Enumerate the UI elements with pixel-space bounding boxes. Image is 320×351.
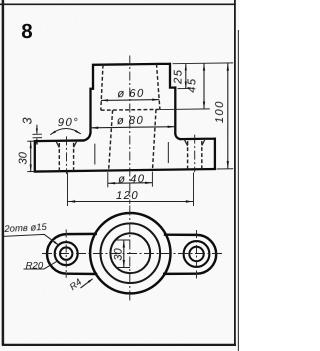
scan edge line right [237,30,239,351]
left lug outline [47,234,67,274]
left lug vertical centerline [65,230,67,278]
right lug outline [197,235,216,274]
border frame [0,0,236,346]
dimension 45 [203,63,205,109]
svg-text:25: 25 [173,69,185,86]
svg-text:90°: 90° [58,117,79,129]
svg-text:3: 3 [20,117,34,124]
extension lines right dims [160,63,233,170]
dimension d40 [108,171,153,187]
svg-text:30: 30 [17,151,29,164]
top view horizontal centerline [42,253,223,255]
left lug boss circle [55,242,78,265]
svg-text:ø 40: ø 40 [118,173,145,185]
dimension 3 chamfer [33,134,43,138]
svg-text:R20: R20 [26,261,44,272]
dimension d80 [91,127,176,128]
centerline main axis [129,56,131,205]
right lug hole d15 [189,247,203,261]
svg-text:45: 45 [186,77,198,93]
front outline [35,63,215,171]
hidden groove line right [167,142,169,163]
dimension 90 deg [50,128,81,134]
centerline right hole axis [194,135,196,173]
svg-text:100: 100 [214,100,226,123]
tangent line top-right [164,233,197,236]
leader d15 [3,234,58,244]
dimension 120 extension lines [68,173,194,207]
top view main vertical centerline [129,206,131,301]
hidden lug hole left [59,143,73,171]
hidden lug hole right [188,141,202,169]
leader R20 [24,261,58,269]
right lug boss circle [184,241,210,267]
dimension 100 [227,63,229,169]
dimension 30 left [27,141,35,172]
leader R4 [81,279,93,288]
svg-text:2отв ø15: 2отв ø15 [3,222,48,235]
top view circle d60 [101,223,161,283]
svg-text:120: 120 [116,190,139,202]
top view circle d40 [110,233,150,273]
hidden groove line left [94,144,96,165]
left lug hole d15 [60,247,72,259]
dimension 30 top view [117,240,131,268]
svg-text:30: 30 [113,248,125,261]
countersink chamfer right hole [184,139,205,146]
dimension d60 [101,99,159,102]
svg-text:ø 60: ø 60 [117,88,144,100]
tangent line bottom-right [163,272,197,275]
dimension 120 [68,201,194,203]
right lug vertical centerline [196,230,198,279]
hidden bore lines [59,63,202,171]
svg-text:8: 8 [21,20,32,43]
front view group (slight scan skew) [17,54,233,206]
centerline left hole axis [66,136,68,174]
svg-text:ø 80: ø 80 [117,115,144,127]
tangent line top-left [67,233,97,236]
tangent line bottom-left [67,272,98,275]
countersink chamfer left hole [56,141,77,148]
top view outer circle d80 [90,213,170,293]
dimension 25 [185,64,187,89]
